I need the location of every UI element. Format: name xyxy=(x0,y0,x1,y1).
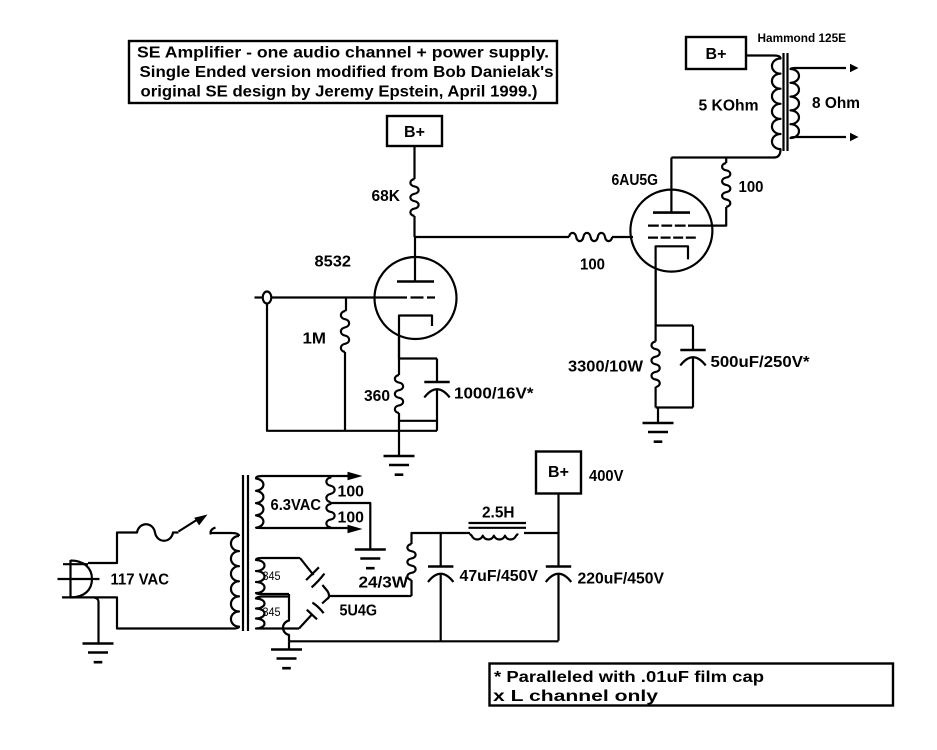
ground (HV center tap) xyxy=(271,650,302,669)
capacitor 1000/16V xyxy=(424,381,449,384)
wire B+ to R 68K xyxy=(413,146,415,179)
wire to ground (output cathode) xyxy=(657,408,659,424)
wire 1M top lead xyxy=(345,298,346,312)
wire screen grid to resistor xyxy=(688,207,726,226)
wire plug hot with fuse xyxy=(88,524,179,563)
wire plate to output transformer xyxy=(671,156,775,158)
svg-text:2.5H: 2.5H xyxy=(482,505,515,522)
footnote box xyxy=(490,664,894,706)
svg-text:1M: 1M xyxy=(303,331,327,348)
svg-text:* Paralleled with .01uF film c: * Paralleled with .01uF film cap xyxy=(494,669,764,686)
svg-text:x L channel only: x L channel only xyxy=(493,688,659,705)
choke 2.5H winding xyxy=(470,534,518,540)
svg-text:68K: 68K xyxy=(372,188,401,205)
wire plug neutral xyxy=(94,597,232,628)
ground (output cathode) xyxy=(643,423,674,442)
arrow output bottom xyxy=(850,133,859,141)
wire screen resistor top xyxy=(725,158,727,164)
wire ground stub (HV tap) xyxy=(288,641,290,649)
wire cap 220uF top xyxy=(557,533,559,567)
ground (AC plug) xyxy=(83,644,114,663)
svg-text:original SE design by Jeremy E: original SE design by Jeremy Epstein, Ap… xyxy=(141,84,538,101)
diode cathode A xyxy=(312,574,325,588)
capacitor 47uF/450V xyxy=(428,565,453,568)
svg-text:1000/16V*: 1000/16V* xyxy=(454,386,535,403)
svg-text:B+: B+ xyxy=(404,124,425,141)
resistor 100 (screen) xyxy=(722,163,730,207)
tube 8532 grid (dashed) xyxy=(394,296,435,298)
wire to R24 xyxy=(410,580,412,596)
wire switch to transformer xyxy=(211,533,239,536)
svg-text:B+: B+ xyxy=(548,464,569,481)
wire humdinger tap to ground xyxy=(331,503,371,550)
svg-text:220uF/450V: 220uF/450V xyxy=(578,571,665,588)
wire cap 500uF bottom lead xyxy=(692,358,694,408)
tube 8532 cathode xyxy=(399,316,432,359)
wire choke to B+ node xyxy=(524,532,559,534)
wire HV center tap with hop xyxy=(283,594,289,641)
wire 6AU5G cathode lead xyxy=(654,268,656,326)
ground (heater center tap) xyxy=(355,550,386,569)
wire cap 1000uF top lead xyxy=(436,359,438,383)
svg-text:100: 100 xyxy=(338,484,365,501)
transformer T1 HV winding B xyxy=(256,597,299,629)
resistor 24/3W xyxy=(407,544,415,580)
tube 6AU5G cathode xyxy=(656,246,688,325)
wire cap 1000uF bottom lead xyxy=(436,390,438,431)
svg-text:6.3VAC: 6.3VAC xyxy=(271,497,322,514)
resistor 3300/10W xyxy=(651,342,659,388)
B+ supply box (400V) xyxy=(536,452,581,494)
svg-text:B+: B+ xyxy=(706,46,727,63)
transformer T1 core xyxy=(243,475,248,631)
AC plug body xyxy=(71,560,93,598)
svg-text:360: 360 xyxy=(364,388,390,405)
wire to R3300 xyxy=(654,326,656,342)
transformer T2 secondary winding xyxy=(791,68,847,138)
svg-text:6AU5G: 6AU5G xyxy=(612,172,659,189)
svg-text:400V: 400V xyxy=(589,468,624,485)
wire 8532 cathode lead xyxy=(398,335,400,359)
choke 2.5H core xyxy=(469,523,527,528)
wire plug to safety ground xyxy=(94,597,99,643)
diode cathode B xyxy=(312,603,323,614)
wire R3300 bottom xyxy=(654,387,656,408)
diode plate B xyxy=(307,610,317,620)
arrow output top xyxy=(850,64,859,72)
transformer T1 heater winding 6.3VAC xyxy=(256,476,348,528)
svg-text:3300/10W: 3300/10W xyxy=(568,359,643,376)
wire diode A to junction xyxy=(322,585,329,596)
svg-text:Hammond 125E: Hammond 125E xyxy=(758,33,847,45)
svg-text:47uF/450V: 47uF/450V xyxy=(460,568,539,585)
svg-text:100: 100 xyxy=(580,257,605,274)
wire rail to ground xyxy=(398,431,400,456)
wire winding A to diode xyxy=(300,558,314,575)
tube 6AU5G screen grid (dashed) xyxy=(648,225,689,227)
wire 1M bottom lead xyxy=(344,352,346,431)
svg-text:8 Ohm: 8 Ohm xyxy=(812,95,860,112)
switch blade xyxy=(179,519,200,532)
wire R24 to rail xyxy=(412,533,471,544)
capacitor 500uF/250V xyxy=(680,349,705,352)
transformer T2 primary winding xyxy=(746,56,781,158)
svg-text:345: 345 xyxy=(263,571,281,583)
node bar 3300 bottom xyxy=(656,406,693,408)
svg-text:SE Amplifier - one audio chann: SE Amplifier - one audio channel + power… xyxy=(137,45,549,62)
title note box xyxy=(129,41,557,103)
resistor 68K xyxy=(410,179,418,216)
wire plate node to 8532 plate xyxy=(414,237,416,282)
arrow heater top xyxy=(348,472,363,480)
wire stopper to 6AU5G grid xyxy=(612,236,633,238)
node bar cathode bottom xyxy=(399,420,437,422)
wire cap 220uF bottom xyxy=(557,574,559,641)
wire cap 47uF bottom xyxy=(440,574,442,641)
wire input whisker xyxy=(255,296,263,298)
resistor 100 (humdinger top) xyxy=(326,476,334,502)
wire ground rail xyxy=(289,640,559,643)
AC plug prongs xyxy=(58,564,100,597)
svg-text:24/3W: 24/3W xyxy=(359,575,409,592)
wire input terminal down left rail xyxy=(267,304,437,431)
transformer T1 HV winding A xyxy=(256,558,300,594)
capacitor 220uF/450V xyxy=(546,565,571,568)
diode plate A xyxy=(306,567,319,580)
ground (8532 cathode) xyxy=(384,456,415,475)
tube 8532 envelope xyxy=(375,257,457,339)
resistor 100 (humdinger bottom) xyxy=(326,502,334,528)
wire rectifier output xyxy=(329,595,412,597)
svg-text:5 KOhm: 5 KOhm xyxy=(699,98,759,115)
resistor 360 xyxy=(395,375,403,413)
node bar 3300 top xyxy=(656,324,693,326)
wire R360 to bottom node xyxy=(398,413,400,431)
wire 6AU5G plate up xyxy=(670,158,672,213)
input terminal node xyxy=(263,292,272,304)
svg-text:5U4G: 5U4G xyxy=(340,603,378,620)
svg-text:117 VAC: 117 VAC xyxy=(111,572,170,589)
transformer T2 core xyxy=(784,53,788,151)
svg-text:8532: 8532 xyxy=(315,254,352,271)
tube 6AU5G plate xyxy=(653,211,690,214)
svg-text:Single Ended version modified: Single Ended version modified from Bob D… xyxy=(140,64,554,81)
wire cap 500uF top lead xyxy=(692,326,694,351)
wire to R360 xyxy=(398,359,400,376)
arrow heater bottom xyxy=(348,525,363,533)
switch arrow head xyxy=(194,515,207,526)
wire winding B to diode xyxy=(299,615,312,629)
svg-text:100: 100 xyxy=(739,179,764,196)
tube 6AU5G control grid (dashed) xyxy=(648,237,697,239)
svg-text:100: 100 xyxy=(338,510,365,527)
wire input to 8532 grid xyxy=(271,296,394,298)
B+ supply box (output) xyxy=(686,37,746,69)
resistor 100 (grid stopper) xyxy=(569,233,612,241)
wire 68K to plate node xyxy=(413,216,415,237)
tube 6AU5G envelope xyxy=(630,190,712,272)
wire B+ node up xyxy=(557,494,559,534)
node bar cathode top xyxy=(399,357,437,359)
wire diode B to junction xyxy=(322,596,329,604)
resistor 1M xyxy=(341,311,349,352)
B+ supply box (driver) xyxy=(387,116,442,146)
tube 8532 plate xyxy=(397,280,434,283)
switch fixed contact xyxy=(211,528,216,535)
svg-text:345: 345 xyxy=(263,607,281,619)
svg-text:500uF/250V*: 500uF/250V* xyxy=(711,354,811,371)
wire plate node to grid stopper xyxy=(415,236,570,238)
transformer T1 primary winding xyxy=(231,536,239,629)
wire cap 47uF top xyxy=(440,533,442,567)
